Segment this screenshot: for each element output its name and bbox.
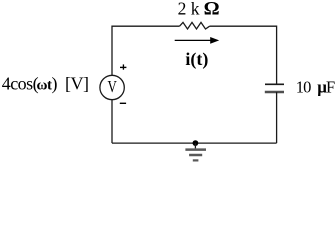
- ground bar 1: [185, 148, 206, 151]
- ground stub: [194, 143, 196, 148]
- svg-text:2 k: 2 k: [178, 0, 200, 18]
- svg-text:i(t): i(t): [185, 49, 208, 70]
- voltage source circle: [100, 75, 124, 99]
- svg-text:V: V: [108, 79, 118, 97]
- capacitor 10uF top plate: [265, 83, 284, 85]
- wire left vertical lower: [111, 100, 113, 143]
- svg-text:Ω: Ω: [204, 0, 220, 20]
- polarity minus sign: [120, 103, 126, 104]
- capacitor 10uF bottom plate: [265, 91, 284, 93]
- wire bottom: [112, 142, 277, 144]
- svg-text:4cos(ωt) [V]: 4cos(ωt) [V]: [2, 74, 89, 95]
- ground bar 2: [189, 154, 202, 157]
- current arrow shaft: [175, 39, 211, 41]
- polarity plus sign: [120, 64, 126, 69]
- ground bar 3: [193, 159, 199, 161]
- wire right vertical lower: [276, 92, 278, 143]
- wire top-right segment: [210, 26, 277, 84]
- junction dot ground node: [193, 140, 199, 146]
- current arrow head: [210, 37, 219, 44]
- wire top-left segment: [112, 26, 180, 75]
- resistor 2kOhm zigzag: [180, 22, 210, 29]
